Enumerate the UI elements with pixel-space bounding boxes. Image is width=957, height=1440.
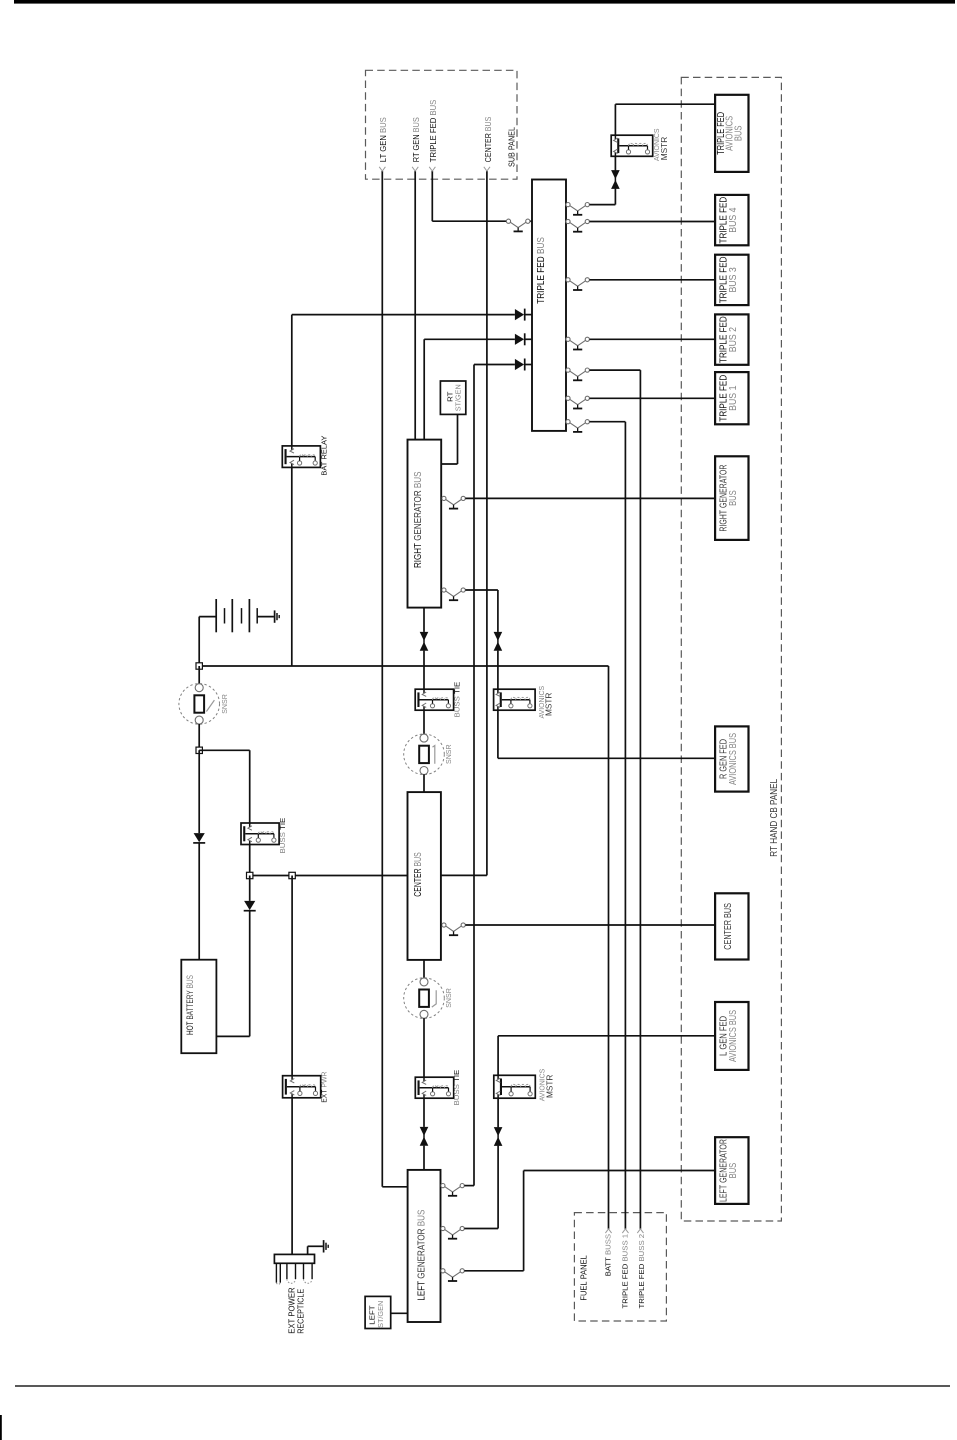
shunt SH1 bbox=[179, 684, 220, 725]
relay BAT RELAY bbox=[282, 446, 320, 468]
relay BUSS TIE K4 bbox=[415, 689, 453, 710]
ground ext power receptacle bbox=[323, 1240, 325, 1252]
wire BATT BUSS trunk to fuel panel bbox=[608, 666, 610, 1229]
svg-text:ST/GEN: ST/GEN bbox=[376, 1301, 385, 1328]
wire LT GEN BUS trunk bbox=[381, 171, 383, 1187]
breaker CB11 left gen diode feed bbox=[441, 1184, 465, 1193]
svg-text:RT HAND CB PANEL: RT HAND CB PANEL bbox=[769, 779, 780, 857]
wire RT GEN BUS feed bbox=[414, 171, 416, 440]
relay EXT PWR K5 bbox=[283, 1076, 321, 1098]
svg-text:BUSS 2: BUSS 2 bbox=[637, 1234, 646, 1262]
svg-text:CENTER: CENTER bbox=[412, 867, 424, 897]
wire CENTER BUS feed trunk bbox=[486, 171, 488, 875]
svg-text:AVIONICS BUS: AVIONICS BUS bbox=[727, 733, 739, 785]
svg-text:AVIONICS BUS: AVIONICS BUS bbox=[727, 1010, 739, 1062]
svg-text:RIGHT: RIGHT bbox=[412, 541, 424, 568]
breaker CB6 triple fed bus 1 bbox=[566, 396, 590, 405]
rt hand cb panel dashed boundary bbox=[681, 77, 781, 1221]
svg-text:RT GEN: RT GEN bbox=[412, 132, 421, 162]
wire CB10 to center bus cb panel bbox=[465, 924, 715, 926]
bus TRIPLE FED BUS 3 bbox=[715, 255, 748, 305]
svg-text:MSTR: MSTR bbox=[544, 1075, 554, 1098]
wire junction to diode CR5 bbox=[249, 876, 251, 901]
wire junction to diode CR4 bbox=[198, 750, 200, 833]
node junction hot battery tap bbox=[196, 747, 202, 753]
svg-text:TRIPLE FED: TRIPLE FED bbox=[535, 254, 547, 304]
wire center bus left feed bbox=[250, 875, 408, 877]
wire relay K3 to r gen fed avionics bus bbox=[497, 710, 499, 758]
node junction ext power tap bbox=[289, 872, 295, 878]
wire diode CR5 to hot battery bus bbox=[249, 911, 251, 1036]
svg-text:EXT: EXT bbox=[320, 1088, 329, 1103]
bus RIGHT GENERATOR BUS bbox=[715, 456, 748, 540]
svg-text:LEFT: LEFT bbox=[416, 1279, 428, 1301]
svg-text:BUS: BUS bbox=[412, 852, 424, 866]
svg-text:RECEPTICLE: RECEPTICLE bbox=[296, 1289, 306, 1334]
wire breaker to triple fed bus bbox=[530, 220, 532, 222]
wire bowtie to relay bbox=[614, 156, 616, 170]
wire CB9 to avionics master K3 bbox=[465, 589, 498, 591]
wire CB3 to triple fed bus 3 bbox=[590, 279, 716, 281]
svg-text:BUS: BUS bbox=[733, 125, 744, 141]
wire battery to junction bbox=[198, 617, 200, 666]
wire CB8 to right generator bus cb panel bbox=[465, 497, 715, 499]
breaker CB1 triple fed avionics feed bbox=[566, 203, 590, 212]
svg-text:HOT: HOT bbox=[185, 1020, 196, 1035]
current sensor SNSR3 left gen bbox=[404, 978, 445, 1019]
svg-text:MSTR: MSTR bbox=[659, 137, 669, 160]
wire relay to triple fed avionics bus bbox=[614, 104, 616, 135]
node junction center feed bbox=[247, 872, 253, 878]
wire CB7 to fuel panel buss 1 bbox=[590, 421, 626, 423]
node CENTER BUS entry arrow bbox=[484, 167, 490, 171]
fuse bowtie left tie bbox=[423, 1127, 425, 1146]
svg-text:BUS 1: BUS 1 bbox=[727, 385, 739, 410]
wire CB1 to avionics master relay bbox=[590, 204, 616, 206]
svg-text:BUS: BUS bbox=[727, 490, 739, 506]
wire bowtie to relay K7 bbox=[497, 1098, 499, 1127]
bus TRIPLE FED BUS bbox=[532, 180, 566, 431]
svg-text:BUSS: BUSS bbox=[278, 830, 287, 854]
wire right gen bus riser to diode CR2 bbox=[423, 339, 425, 439]
breaker CB input triple fed bus bbox=[506, 219, 530, 228]
wire battery to diode CR1 bbox=[292, 314, 515, 316]
diode CR3 left gen to triple fed bus bbox=[515, 359, 524, 370]
wire junction to buss tie relay K2 bbox=[199, 749, 250, 751]
svg-text:BUSS: BUSS bbox=[452, 694, 461, 718]
sub panel dashed boundary bbox=[366, 70, 518, 179]
svg-text:TIE: TIE bbox=[452, 682, 461, 694]
svg-text:BUS: BUS bbox=[379, 117, 388, 133]
svg-text:SNSR: SNSR bbox=[444, 744, 453, 764]
wire relay K7 to l gen fed avionics bus bbox=[497, 1036, 499, 1076]
breaker CB3 triple fed bus 3 bbox=[566, 278, 590, 287]
node fuel triple fed buss 1 arrow bbox=[622, 1229, 628, 1233]
wire right gen bus to buss tie K4 bbox=[423, 608, 425, 632]
current sensor SNSR2 right gen bbox=[404, 734, 445, 775]
wire TRIPLE FED BUS feed bbox=[431, 171, 433, 221]
diode CR5 hot battery return bbox=[244, 901, 255, 910]
bus RIGHT GENERATION BUS bbox=[408, 440, 442, 608]
breaker CB9 r gen avionics feed bbox=[442, 588, 466, 597]
wire CB12 to avionics master K7 bbox=[464, 1228, 498, 1230]
fuel panel dashed boundary bbox=[574, 1213, 666, 1321]
node fuel triple fed buss 2 arrow bbox=[637, 1229, 643, 1233]
breaker CB7 fuel triple fed buss 1 feed bbox=[566, 420, 590, 429]
wire ext pwr relay to receptacle bbox=[291, 1098, 293, 1255]
node LT GEN BUS entry arrow bbox=[379, 167, 385, 171]
svg-text:BUSS: BUSS bbox=[452, 1082, 461, 1106]
bus CENTER BUS cb panel bbox=[715, 893, 748, 959]
relay BUSS TIE K6 bbox=[415, 1077, 453, 1098]
battery B1 bbox=[199, 616, 216, 618]
page header bar bbox=[14, 0, 955, 4]
wire bowtie to buss tie K4 bbox=[423, 651, 425, 690]
wire diode to hot battery bus bbox=[198, 844, 200, 960]
wire CB2 to triple fed bus 4 bbox=[590, 221, 716, 223]
svg-text:SUB PANEL: SUB PANEL bbox=[508, 127, 517, 167]
box RT ST/GEN bbox=[440, 381, 465, 414]
wire sensor SNSR3 to buss tie K6 bbox=[423, 1018, 425, 1077]
fuse bowtie r gen avionics bbox=[497, 632, 499, 651]
relay AVIONICS MSTR K1 bbox=[611, 135, 653, 156]
fuse bowtie l gen avionics bbox=[497, 1127, 499, 1146]
node TRIPLE FED BUS entry arrow bbox=[429, 167, 435, 171]
breaker CB12 l gen avionics feed bbox=[441, 1226, 465, 1235]
bus L GEN FED AVIONICS BUS bbox=[715, 1002, 748, 1070]
bus R GEN FED AVIONICS BUS bbox=[715, 726, 748, 791]
svg-text:FUEL PANEL: FUEL PANEL bbox=[580, 1255, 589, 1301]
bus TRIPLE FED BUS 2 bbox=[715, 314, 748, 364]
wire buss tie K2 to center junction bbox=[249, 845, 251, 876]
breaker CB4 triple fed bus 2 bbox=[566, 337, 590, 346]
svg-text:GENERATOR: GENERATOR bbox=[416, 1226, 428, 1279]
relay AVIONICS MSTR K3 bbox=[494, 689, 535, 710]
wire left st/gen to left generation bus bbox=[391, 1312, 408, 1314]
svg-text:BUS 4: BUS 4 bbox=[727, 207, 739, 232]
svg-text:CENTER BUS: CENTER BUS bbox=[722, 903, 734, 950]
wire ext power branch bbox=[291, 876, 293, 1076]
page footer corner mark bbox=[0, 1415, 2, 1440]
svg-text:TRIPLE FED: TRIPLE FED bbox=[429, 115, 438, 162]
svg-text:ST/GEN: ST/GEN bbox=[454, 384, 463, 411]
wire hot battery trunk main dc line bbox=[199, 665, 608, 667]
diode CR2 right gen to triple fed bus bbox=[515, 334, 524, 345]
node junction battery bus bbox=[196, 663, 202, 669]
breaker CB8 right generator bus output bbox=[442, 496, 466, 505]
bus LEFT GENERATION BUS bbox=[408, 1170, 441, 1322]
svg-text:BUS 2: BUS 2 bbox=[727, 327, 739, 352]
svg-text:MSTR: MSTR bbox=[544, 693, 554, 716]
svg-text:SNSR: SNSR bbox=[444, 988, 453, 1008]
wire junction to sensor SNSR1 bbox=[198, 666, 200, 684]
wire battery relay branch bbox=[291, 315, 293, 446]
wire CB5 to fuel panel buss 2 bbox=[590, 369, 641, 371]
svg-text:BUS 3: BUS 3 bbox=[727, 267, 739, 292]
wire bowtie to left generation bus bbox=[423, 1146, 425, 1170]
wire bowtie to relay K3 bbox=[497, 651, 499, 690]
breaker CB5 fuel triple fed buss 2 feed bbox=[566, 368, 590, 377]
svg-text:TRIPLE FED: TRIPLE FED bbox=[637, 1262, 646, 1309]
svg-text:PWR: PWR bbox=[320, 1071, 329, 1088]
wire center bus to sensor SNSR3 bbox=[423, 960, 425, 978]
svg-text:BUSS: BUSS bbox=[603, 1234, 612, 1255]
svg-text:BUS: BUS bbox=[412, 117, 421, 132]
svg-text:BATTERY: BATTERY bbox=[185, 988, 196, 1019]
bus TRIPLE FED BUS 4 bbox=[715, 195, 748, 245]
box LEFT ST/GEN bbox=[365, 1296, 391, 1328]
wire buss tie K6 to bowtie bbox=[423, 1098, 425, 1127]
bus HOT BATTERY BUS bbox=[181, 960, 216, 1053]
svg-text:BUS: BUS bbox=[727, 1163, 739, 1179]
relay BUSS TIE K2 bbox=[241, 823, 279, 845]
ground battery bbox=[274, 610, 276, 622]
svg-text:BUS: BUS bbox=[416, 1210, 428, 1227]
fuse bowtie avionics feed bbox=[614, 170, 616, 189]
wire CB4 to triple fed bus 2 bbox=[590, 338, 716, 340]
svg-text:BUS: BUS bbox=[535, 237, 547, 254]
svg-text:LT GEN: LT GEN bbox=[379, 133, 388, 162]
wire sensor to junction 2 bbox=[198, 724, 200, 750]
svg-text:SNSR: SNSR bbox=[220, 694, 229, 714]
page footer rule bbox=[15, 1385, 950, 1387]
wire buss tie K4 to sensor SNSR2 bbox=[423, 710, 425, 734]
connector EXT POWER RECEPTICLE bbox=[274, 1254, 314, 1263]
svg-text:BUSS 1: BUSS 1 bbox=[620, 1234, 629, 1262]
wire CB13 to left generator bus cb panel bbox=[464, 1270, 523, 1272]
wire receptacle ground stub bbox=[307, 1246, 309, 1254]
wire CB6 to triple fed bus 1 bbox=[590, 397, 716, 399]
svg-text:TIE: TIE bbox=[452, 1070, 461, 1082]
svg-text:BUS: BUS bbox=[185, 975, 196, 988]
diode CR1 battery to triple fed bus bbox=[515, 309, 524, 320]
wire rt st/gen to right generation bus bbox=[457, 414, 459, 464]
svg-text:BUS: BUS bbox=[429, 100, 438, 116]
svg-text:BUS: BUS bbox=[484, 117, 493, 132]
wire sensor SNSR2 to center bus bbox=[423, 774, 425, 792]
breaker CB10 center bus output bbox=[442, 923, 466, 932]
fuse bowtie right tie bbox=[423, 632, 425, 651]
svg-text:TRIPLE FED: TRIPLE FED bbox=[620, 1262, 629, 1309]
svg-text:BUS: BUS bbox=[412, 472, 424, 489]
breaker CB2 triple fed bus 4 bbox=[566, 219, 590, 228]
svg-text:BAT RELAY: BAT RELAY bbox=[320, 436, 329, 476]
relay AVIONICS MSTR K7 bbox=[494, 1075, 536, 1098]
svg-text:GENERATOR: GENERATOR bbox=[412, 488, 424, 541]
bus TRIPLE FED AVIONICS BUS bbox=[715, 95, 748, 172]
node fuel batt buss arrow bbox=[605, 1229, 611, 1233]
svg-text:BATT: BATT bbox=[603, 1255, 612, 1276]
wire CB11 riser to diode CR3 bbox=[464, 1185, 474, 1187]
bus LEFT GENERATOR BUS cb panel bbox=[715, 1137, 748, 1204]
breaker CB13 left generator bus output bbox=[441, 1269, 465, 1277]
bus TRIPLE FED BUS 1 bbox=[715, 372, 748, 424]
svg-text:TIE: TIE bbox=[278, 818, 287, 830]
diode CR4 to hot battery bus bbox=[194, 833, 205, 842]
bus CENTER BUS bbox=[408, 792, 441, 960]
svg-text:CENTER: CENTER bbox=[484, 131, 493, 162]
node RT GEN BUS entry arrow bbox=[412, 167, 418, 171]
